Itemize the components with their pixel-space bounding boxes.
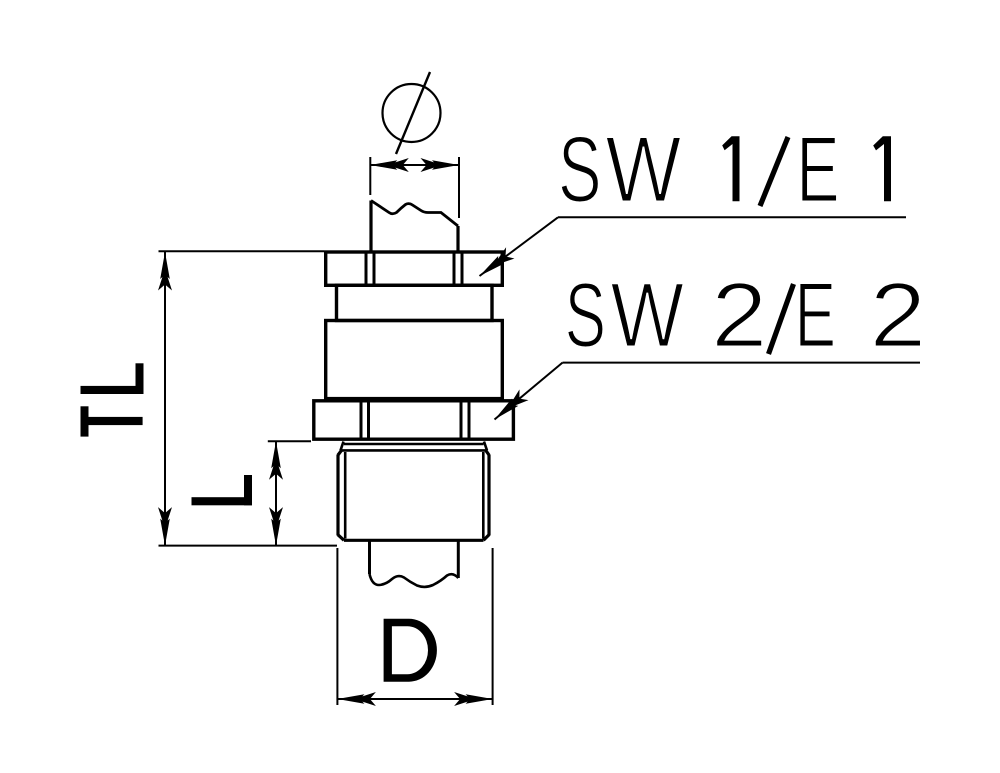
svg-text:W: W bbox=[611, 263, 684, 365]
svg-text:E: E bbox=[795, 263, 836, 366]
svg-text:E: E bbox=[796, 117, 839, 222]
svg-text:2: 2 bbox=[711, 265, 767, 366]
svg-text:2: 2 bbox=[870, 263, 927, 366]
svg-text:W: W bbox=[606, 116, 682, 221]
svg-text:S: S bbox=[565, 263, 606, 366]
svg-text:S: S bbox=[558, 118, 602, 223]
